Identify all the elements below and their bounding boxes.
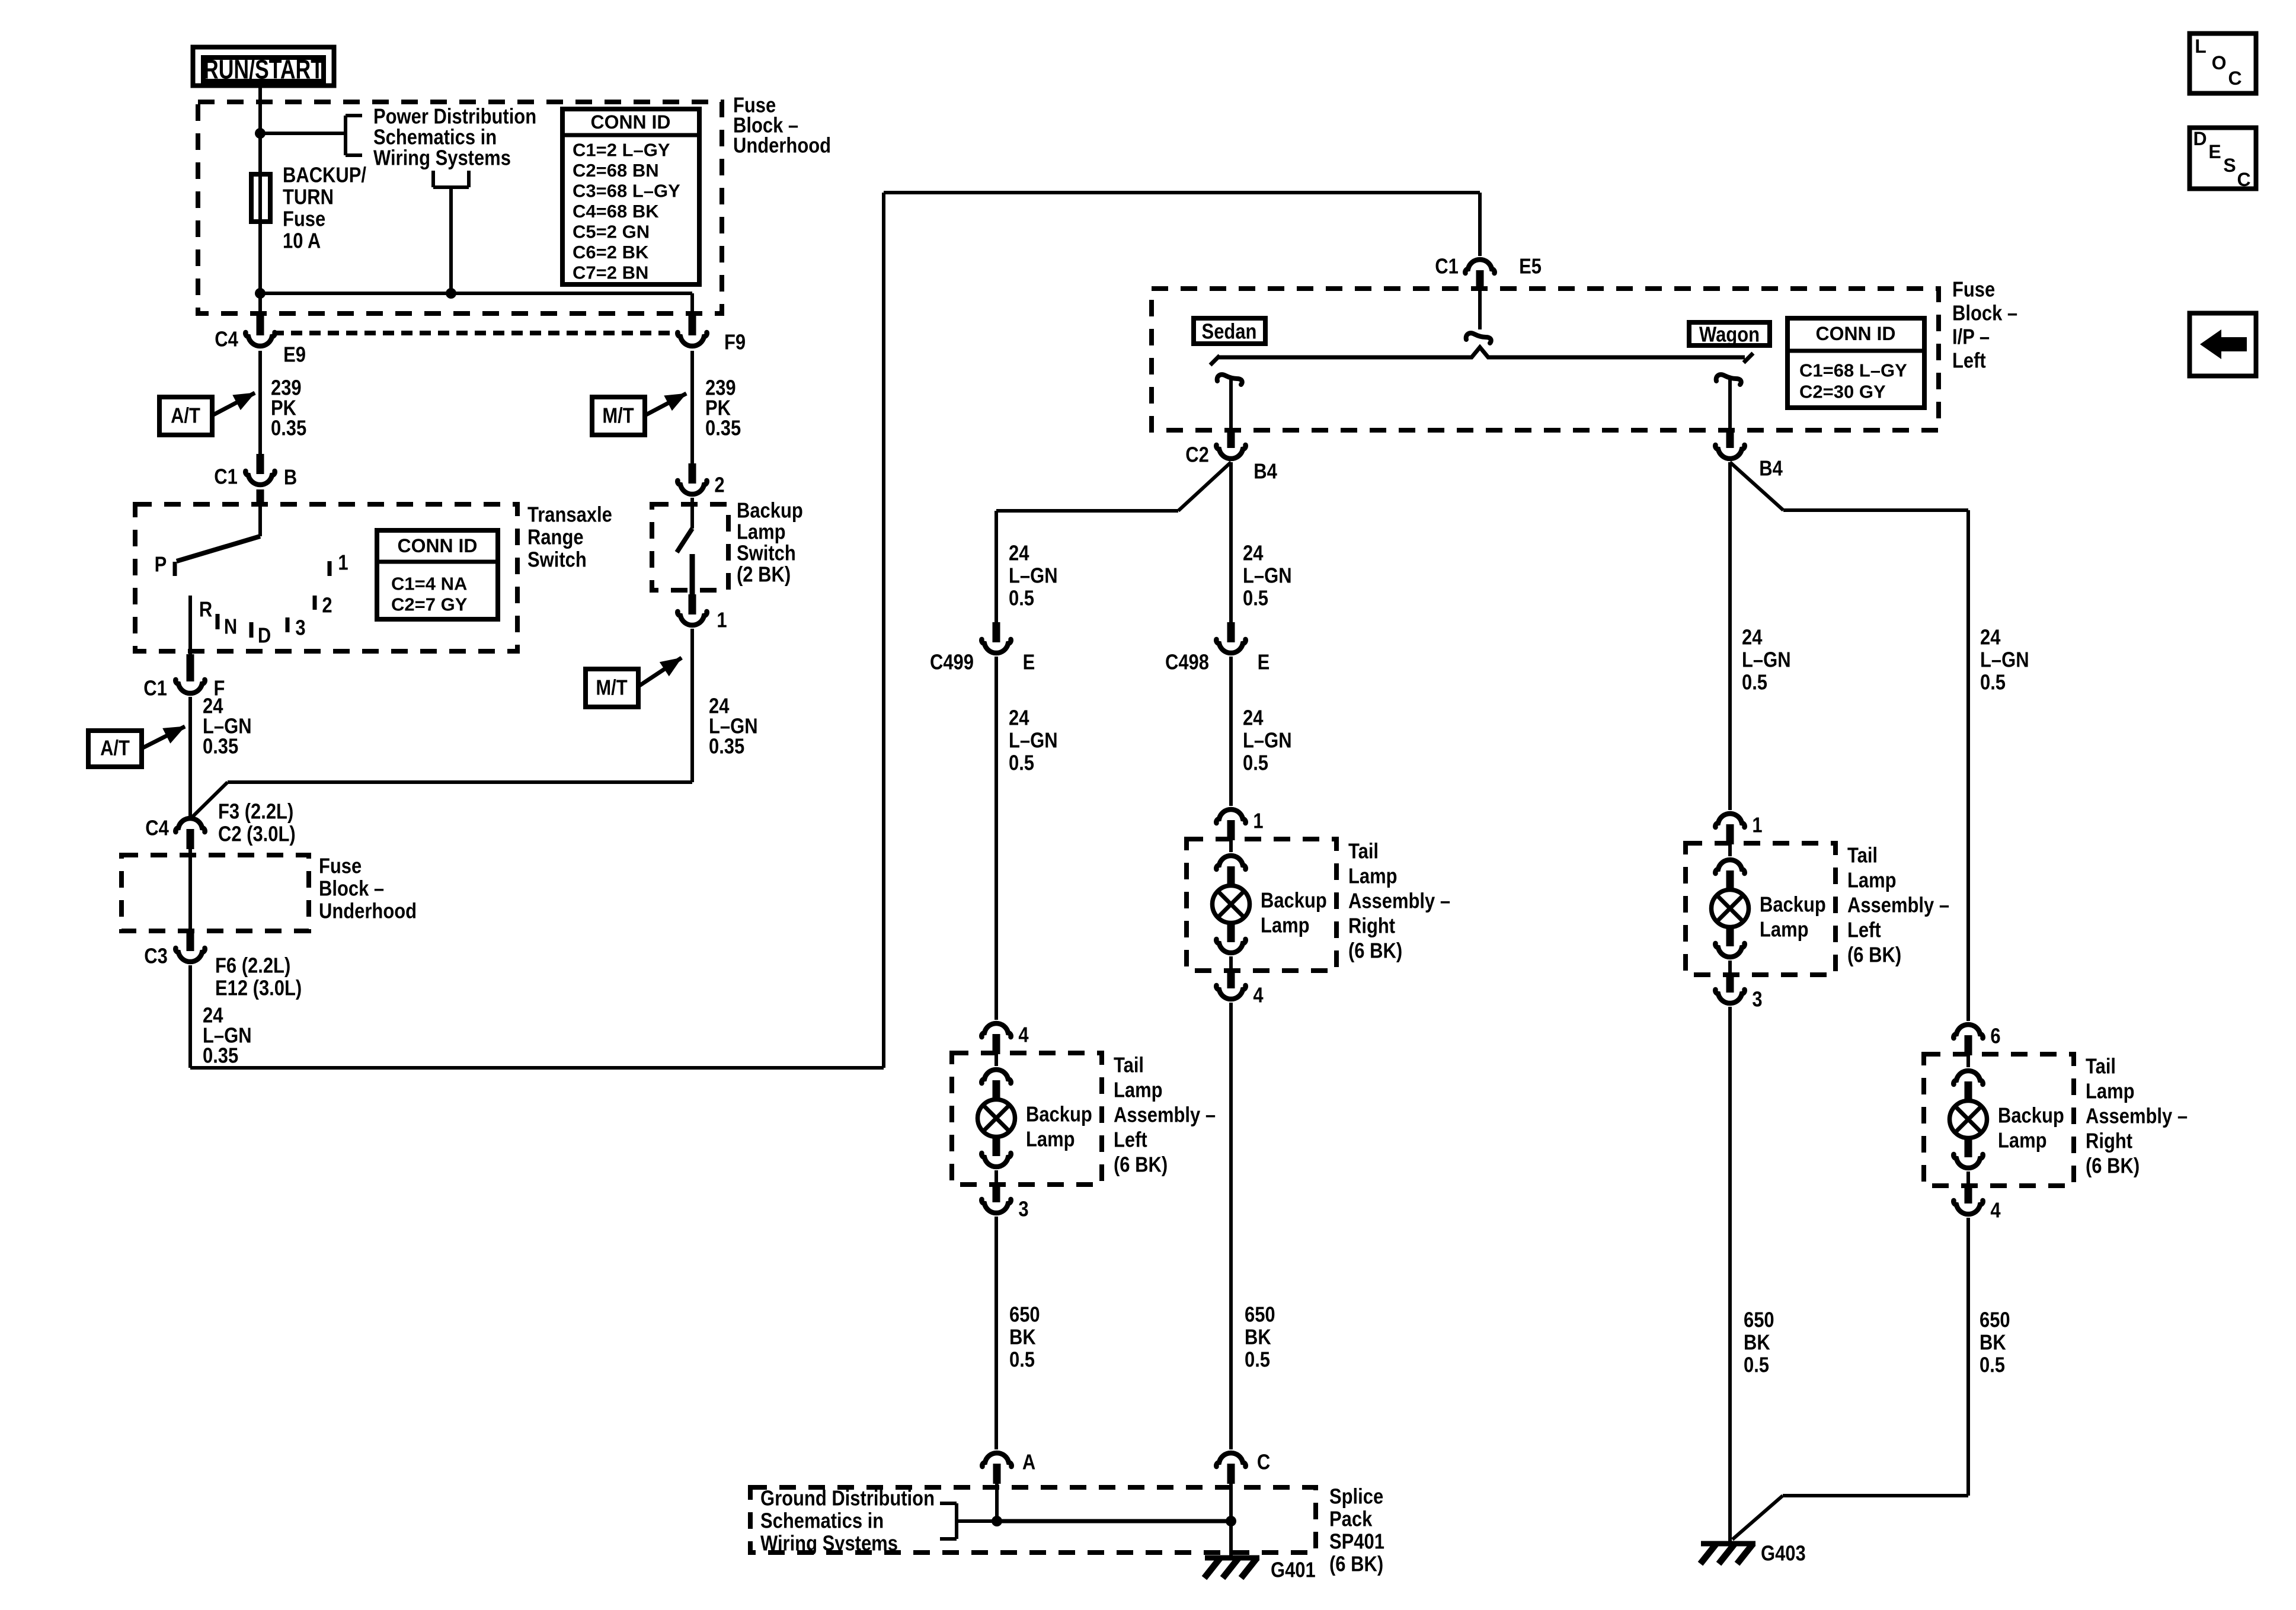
svg-text:C: C <box>2228 68 2241 89</box>
svg-text:C: C <box>2237 169 2250 190</box>
svg-text:C4=68 BK: C4=68 BK <box>573 201 659 222</box>
svg-text:Lamp: Lamp <box>1348 865 1398 888</box>
svg-text:L–GN: L–GN <box>1243 564 1292 588</box>
svg-text:A/T: A/T <box>171 404 200 428</box>
svg-text:F6 (2.2L): F6 (2.2L) <box>215 954 290 978</box>
svg-text:Underhood: Underhood <box>319 900 417 923</box>
svg-text:Lamp: Lamp <box>1261 914 1310 937</box>
svg-text:L: L <box>2195 36 2207 57</box>
svg-text:C1=4 NA: C1=4 NA <box>391 574 467 594</box>
svg-text:4: 4 <box>1253 984 1264 1007</box>
svg-text:L–GN: L–GN <box>1980 648 2029 672</box>
svg-text:R: R <box>199 598 212 622</box>
svg-text:0.35: 0.35 <box>271 417 306 440</box>
svg-text:C2=7 GY: C2=7 GY <box>391 594 468 615</box>
svg-text:Splice: Splice <box>1329 1485 1383 1509</box>
svg-text:Ground Distribution: Ground Distribution <box>760 1487 935 1510</box>
svg-text:CONN ID: CONN ID <box>1816 323 1896 344</box>
svg-text:24: 24 <box>1243 706 1264 730</box>
svg-text:0.5: 0.5 <box>1742 671 1767 694</box>
svg-text:CONN ID: CONN ID <box>398 535 478 556</box>
svg-text:Backup: Backup <box>1760 893 1826 917</box>
svg-text:Backup: Backup <box>1261 889 1327 913</box>
svg-text:Assembly –: Assembly – <box>1847 894 1949 917</box>
svg-text:0.5: 0.5 <box>1009 1348 1035 1372</box>
svg-text:(2 BK): (2 BK) <box>737 563 791 587</box>
svg-text:Power Distribution: Power Distribution <box>373 105 536 129</box>
svg-text:Assembly –: Assembly – <box>1348 889 1450 913</box>
svg-text:F9: F9 <box>724 331 746 354</box>
svg-text:E: E <box>1023 651 1035 674</box>
svg-text:Assembly –: Assembly – <box>1114 1103 1216 1127</box>
svg-text:E12 (3.0L): E12 (3.0L) <box>215 977 302 1000</box>
svg-text:0.5: 0.5 <box>1009 587 1034 610</box>
svg-text:C3: C3 <box>144 945 168 968</box>
svg-text:BK: BK <box>1245 1326 1271 1349</box>
svg-text:Left: Left <box>1114 1128 1147 1152</box>
svg-text:Assembly –: Assembly – <box>2086 1105 2188 1128</box>
svg-text:Sedan: Sedan <box>1202 320 1257 344</box>
svg-text:Tail: Tail <box>1348 840 1379 863</box>
svg-text:O: O <box>2212 52 2227 73</box>
svg-text:0.5: 0.5 <box>1980 1353 2005 1377</box>
svg-text:Backup: Backup <box>737 499 803 523</box>
svg-text:Right: Right <box>2086 1129 2132 1153</box>
svg-text:Schematics in: Schematics in <box>760 1509 884 1533</box>
svg-text:1: 1 <box>717 609 727 632</box>
svg-text:C1: C1 <box>214 465 238 489</box>
svg-text:S: S <box>2223 155 2236 176</box>
svg-text:A/T: A/T <box>100 737 130 760</box>
svg-text:Switch: Switch <box>737 542 796 565</box>
svg-text:6: 6 <box>1990 1025 2000 1048</box>
svg-text:C2: C2 <box>1185 443 1209 467</box>
svg-text:0.35: 0.35 <box>709 735 744 758</box>
svg-text:E: E <box>2208 141 2221 162</box>
svg-text:CONN ID: CONN ID <box>591 111 671 133</box>
svg-text:(6 BK): (6 BK) <box>1329 1553 1383 1576</box>
svg-text:C6=2 BK: C6=2 BK <box>573 242 649 263</box>
svg-text:2: 2 <box>322 594 332 617</box>
svg-text:P: P <box>155 553 167 577</box>
svg-text:C2 (3.0L): C2 (3.0L) <box>218 822 296 846</box>
svg-text:0.5: 0.5 <box>1243 587 1268 610</box>
svg-text:Pack: Pack <box>1329 1507 1373 1531</box>
svg-text:TURN: TURN <box>283 185 334 209</box>
svg-text:Wagon: Wagon <box>1699 323 1760 347</box>
svg-text:F3 (2.2L): F3 (2.2L) <box>218 800 293 824</box>
svg-text:3: 3 <box>295 616 305 640</box>
svg-text:L–GN: L–GN <box>1009 729 1058 753</box>
svg-text:Lamp: Lamp <box>737 520 786 544</box>
svg-text:Block –: Block – <box>319 877 384 901</box>
svg-text:C1: C1 <box>143 677 167 700</box>
svg-text:E: E <box>1258 651 1270 674</box>
svg-text:Backup: Backup <box>1026 1103 1092 1126</box>
svg-text:Transaxle: Transaxle <box>527 503 612 527</box>
svg-text:0.5: 0.5 <box>1980 671 2006 694</box>
svg-text:BK: BK <box>1009 1326 1036 1349</box>
svg-text:C5=2 GN: C5=2 GN <box>573 222 650 242</box>
svg-text:(6 BK): (6 BK) <box>1847 943 1901 967</box>
svg-text:Fuse: Fuse <box>283 207 325 231</box>
svg-text:B: B <box>284 466 297 489</box>
svg-text:Lamp: Lamp <box>1114 1078 1163 1102</box>
svg-text:C4: C4 <box>215 328 238 351</box>
svg-text:G403: G403 <box>1761 1542 1806 1566</box>
svg-text:4: 4 <box>1990 1199 2001 1222</box>
svg-text:2: 2 <box>714 473 724 497</box>
svg-text:Backup: Backup <box>1998 1104 2064 1128</box>
svg-text:24: 24 <box>1009 542 1029 565</box>
svg-text:0.5: 0.5 <box>1243 751 1268 775</box>
svg-text:BACKUP/: BACKUP/ <box>283 164 366 187</box>
svg-text:A: A <box>1022 1451 1035 1474</box>
svg-text:C: C <box>1257 1451 1270 1474</box>
svg-text:1: 1 <box>338 551 348 575</box>
svg-text:10 A: 10 A <box>283 229 321 253</box>
svg-text:24: 24 <box>1009 706 1029 730</box>
svg-text:Schematics in: Schematics in <box>373 126 497 149</box>
svg-text:24: 24 <box>1742 626 1763 649</box>
svg-text:C498: C498 <box>1165 651 1209 674</box>
svg-text:Fuse: Fuse <box>319 854 362 878</box>
svg-text:(6 BK): (6 BK) <box>2086 1154 2140 1178</box>
svg-text:0.35: 0.35 <box>203 735 238 758</box>
svg-text:D: D <box>2193 128 2207 149</box>
svg-text:(6 BK): (6 BK) <box>1114 1153 1168 1177</box>
svg-text:3: 3 <box>1752 988 1762 1012</box>
svg-text:650: 650 <box>1744 1308 1774 1332</box>
svg-text:24: 24 <box>1980 626 2001 649</box>
svg-text:C4: C4 <box>145 817 169 840</box>
svg-text:L–GN: L–GN <box>1742 648 1791 672</box>
svg-text:C2=30 GY: C2=30 GY <box>1799 382 1886 402</box>
svg-text:Lamp: Lamp <box>1998 1129 2047 1153</box>
svg-text:1: 1 <box>1752 814 1762 837</box>
svg-text:Left: Left <box>1952 349 1986 373</box>
svg-text:Lamp: Lamp <box>1847 869 1897 892</box>
svg-text:0.35: 0.35 <box>705 417 741 440</box>
svg-text:24: 24 <box>1243 542 1264 565</box>
svg-text:C2=68 BN: C2=68 BN <box>573 160 659 181</box>
svg-text:Right: Right <box>1348 914 1395 938</box>
svg-text:Tail: Tail <box>1847 844 1878 868</box>
svg-text:BK: BK <box>1980 1331 2006 1355</box>
svg-text:C1: C1 <box>1435 255 1459 279</box>
svg-text:Underhood: Underhood <box>733 134 831 158</box>
svg-text:L–GN: L–GN <box>1243 729 1292 753</box>
svg-text:B4: B4 <box>1759 457 1783 481</box>
svg-text:Lamp: Lamp <box>1026 1128 1075 1151</box>
svg-text:650: 650 <box>1009 1303 1040 1327</box>
svg-text:650: 650 <box>1245 1303 1275 1327</box>
svg-text:G401: G401 <box>1271 1558 1316 1582</box>
svg-text:C3=68 L–GY: C3=68 L–GY <box>573 181 680 201</box>
svg-text:Lamp: Lamp <box>1760 918 1809 942</box>
svg-text:C1=2 L–GY: C1=2 L–GY <box>573 140 670 161</box>
svg-text:0.5: 0.5 <box>1744 1353 1769 1377</box>
svg-text:Range: Range <box>527 526 584 549</box>
svg-text:Wiring Systems: Wiring Systems <box>760 1532 898 1555</box>
svg-text:(6 BK): (6 BK) <box>1348 939 1402 963</box>
svg-text:Fuse: Fuse <box>1952 278 1995 302</box>
svg-text:B4: B4 <box>1253 460 1277 484</box>
svg-text:M/T: M/T <box>596 676 628 700</box>
svg-text:E5: E5 <box>1519 255 1542 279</box>
svg-text:Block –: Block – <box>1952 302 2017 325</box>
svg-text:D: D <box>258 624 271 648</box>
svg-text:Tail: Tail <box>2086 1055 2116 1078</box>
svg-text:C499: C499 <box>930 651 974 674</box>
svg-text:0.5: 0.5 <box>1245 1348 1270 1372</box>
svg-text:Wiring Systems: Wiring Systems <box>373 146 511 170</box>
svg-text:Switch: Switch <box>527 548 587 572</box>
svg-text:C1=68 L–GY: C1=68 L–GY <box>1799 360 1907 381</box>
svg-text:Tail: Tail <box>1114 1054 1144 1077</box>
svg-text:C7=2 BN: C7=2 BN <box>573 263 648 283</box>
svg-text:Left: Left <box>1847 918 1881 942</box>
svg-text:E9: E9 <box>283 343 306 367</box>
svg-text:I/P –: I/P – <box>1952 325 1990 349</box>
svg-text:1: 1 <box>1253 809 1263 833</box>
svg-text:Lamp: Lamp <box>2086 1080 2135 1103</box>
svg-text:RUN/START: RUN/START <box>203 55 324 85</box>
svg-text:N: N <box>224 615 237 639</box>
svg-text:M/T: M/T <box>602 404 634 428</box>
svg-text:0.35: 0.35 <box>203 1044 238 1068</box>
svg-text:650: 650 <box>1980 1308 2010 1332</box>
svg-text:SP401: SP401 <box>1329 1530 1384 1554</box>
svg-text:3: 3 <box>1018 1198 1028 1221</box>
svg-text:0.5: 0.5 <box>1009 751 1034 775</box>
svg-text:L–GN: L–GN <box>1009 564 1058 588</box>
svg-text:BK: BK <box>1744 1331 1770 1355</box>
svg-text:4: 4 <box>1018 1023 1029 1047</box>
